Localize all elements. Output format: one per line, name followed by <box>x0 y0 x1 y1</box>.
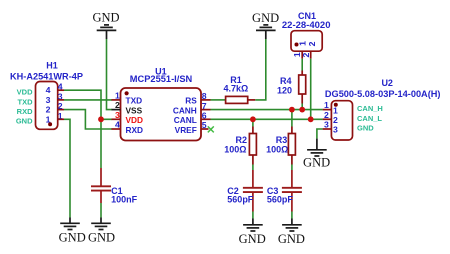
svg-text:3: 3 <box>115 110 120 120</box>
svg-text:RXD: RXD <box>17 107 33 116</box>
svg-text:7: 7 <box>202 101 207 111</box>
svg-text:GND: GND <box>59 230 86 244</box>
svg-text:22-28-4020: 22-28-4020 <box>282 20 331 30</box>
svg-text:560pF: 560pF <box>267 195 294 205</box>
svg-text:TXD: TXD <box>126 96 143 106</box>
svg-text:3: 3 <box>333 125 338 135</box>
svg-text:4: 4 <box>46 85 51 95</box>
ground GND3 bottom-left <box>60 218 80 230</box>
svg-text:6: 6 <box>202 111 207 121</box>
capacitor C1 <box>100 168 102 186</box>
U1 right pin stubs <box>201 99 211 101</box>
svg-text:KH-A2541WR-4P: KH-A2541WR-4P <box>10 71 83 81</box>
wire CN1 pin2 down to CANL <box>310 59 312 120</box>
wire CN1 pin1 down to R4 <box>301 59 303 71</box>
U2 pin stubs <box>323 110 332 129</box>
capacitor C2 <box>252 170 254 187</box>
wire CANH: U1 pin7 to U2 pin1 <box>211 109 323 111</box>
wire C1 bottom to GND4 <box>100 203 102 218</box>
node R4/CANH junction <box>299 107 305 113</box>
svg-text:GND: GND <box>278 232 305 246</box>
svg-text:CAN_L: CAN_L <box>357 114 382 123</box>
svg-text:CAN_H: CAN_H <box>357 104 383 113</box>
svg-text:3: 3 <box>324 120 329 130</box>
svg-text:U2: U2 <box>381 78 393 88</box>
svg-text:1: 1 <box>324 100 329 110</box>
svg-text:GND: GND <box>357 124 374 133</box>
svg-text:RXD: RXD <box>126 125 144 135</box>
wire VDD net: H1 pin4 right, down, to U1 pin3 <box>64 90 112 119</box>
wire CANL junction down to R2 <box>252 119 254 126</box>
node R3/CANH junction <box>289 107 295 113</box>
svg-text:RS: RS <box>185 96 197 106</box>
svg-text:100nF: 100nF <box>111 194 138 204</box>
node CN1.2/CANL junction <box>308 116 314 122</box>
connector CN1 body <box>291 31 322 52</box>
svg-text:100Ω: 100Ω <box>224 144 246 154</box>
node VDD junction <box>98 116 104 122</box>
wire R2 to C2 <box>252 165 254 171</box>
svg-text:GND: GND <box>88 230 115 244</box>
svg-text:VDD: VDD <box>126 115 144 125</box>
svg-text:4.7kΩ: 4.7kΩ <box>224 84 249 94</box>
svg-text:DG500-5.08-03P-14-00A(H): DG500-5.08-03P-14-00A(H) <box>325 89 441 99</box>
svg-text:8: 8 <box>202 91 207 101</box>
svg-text:VSS: VSS <box>126 105 143 115</box>
CN1 pin-1 marker dot <box>295 43 299 47</box>
svg-text:100Ω: 100Ω <box>266 144 288 154</box>
ground GND2 top-right (inverted, bars above stub) <box>256 25 276 39</box>
wire CANH junction down to R3 (crosses CANL) <box>291 110 293 127</box>
svg-text:CANL: CANL <box>174 115 197 125</box>
svg-text:2: 2 <box>115 100 120 110</box>
wire R4 bottom to CANH <box>301 104 303 110</box>
wire U2 pin3 to GND5 <box>317 129 323 139</box>
capacitor C3 <box>291 170 293 187</box>
wire C3 bottom to GND7 <box>291 212 293 219</box>
svg-text:R4: R4 <box>280 76 292 86</box>
wire RXD net: H1 pin2 right, down, to U1 pin4 <box>64 110 112 129</box>
svg-text:5: 5 <box>202 120 207 130</box>
svg-text:VREF: VREF <box>175 125 197 135</box>
svg-text:H1: H1 <box>46 61 58 71</box>
svg-text:3: 3 <box>46 95 51 105</box>
U2 pin-1 marker dot <box>334 103 338 107</box>
svg-text:VDD: VDD <box>17 88 33 97</box>
svg-text:2: 2 <box>307 41 317 46</box>
wire RS net: GND2 down to R1 right end <box>255 39 266 100</box>
svg-text:4: 4 <box>115 120 120 130</box>
IC U1 body <box>121 88 202 141</box>
svg-text:120: 120 <box>277 85 292 95</box>
node R2/CANL junction <box>250 116 256 122</box>
ground GND5 below U2 pin3 <box>307 139 327 156</box>
svg-text:GND: GND <box>252 11 279 25</box>
resistor R4 <box>301 71 303 76</box>
wire VSS net from GND1 down to U1 pin2 <box>107 39 113 110</box>
svg-text:MCP2551-I/SN: MCP2551-I/SN <box>130 74 193 84</box>
wire R3 to C3 <box>291 165 293 171</box>
connector H1 body <box>36 82 58 130</box>
U1 left pin stubs <box>112 99 121 101</box>
svg-text:GND: GND <box>303 155 330 169</box>
ground GND6 below C2 <box>243 219 263 232</box>
svg-text:2: 2 <box>46 105 51 115</box>
svg-text:CANH: CANH <box>173 105 197 115</box>
svg-text:2: 2 <box>324 110 329 120</box>
wire GND net: H1 pin1 right, down to GND3 <box>64 119 70 217</box>
resistor R2 <box>252 127 254 134</box>
wire VDD net: junction down to C1 <box>100 119 102 168</box>
svg-text:560pF: 560pF <box>227 195 254 205</box>
ground GND4 below C1 <box>91 218 111 230</box>
svg-text:1: 1 <box>333 105 338 115</box>
wire RS: U1 pin8 to R1 <box>211 99 226 101</box>
H1 pin-1 marker dot <box>48 122 52 126</box>
H1 pin stubs <box>58 90 64 119</box>
svg-text:1: 1 <box>46 114 51 124</box>
svg-text:GND: GND <box>16 117 33 126</box>
resistor R1 <box>226 96 248 103</box>
resistor R3 <box>291 127 293 134</box>
connector U2 body <box>331 101 352 140</box>
svg-text:GND: GND <box>92 11 119 25</box>
ground GND1 top-left (inverted, bars above stub) <box>97 25 117 39</box>
wire TXD net: H1 pin3 to U1 pin1 <box>64 99 112 101</box>
no-connect X on VREF pin 5 <box>208 126 214 132</box>
svg-text:GND: GND <box>239 232 266 246</box>
svg-text:1: 1 <box>115 90 120 100</box>
svg-text:2: 2 <box>333 115 338 125</box>
svg-text:TXD: TXD <box>18 97 34 106</box>
ground GND7 below C3 <box>282 219 302 232</box>
U1 pin-1 marker dot <box>125 91 129 95</box>
wire CANL: U1 pin6 to U2 pin2 <box>211 118 323 120</box>
wire C2 bottom to GND6 <box>252 212 254 219</box>
CN1 pin stubs <box>301 51 303 59</box>
